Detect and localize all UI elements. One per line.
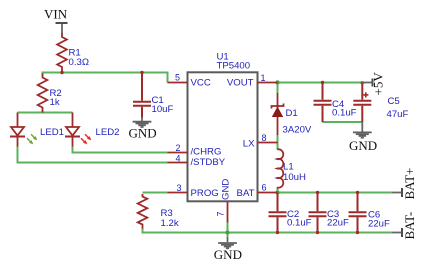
- svg-text:1: 1: [261, 73, 266, 83]
- svg-text:+5V: +5V: [371, 72, 386, 96]
- svg-text:LED1: LED1: [40, 127, 64, 138]
- svg-text:22uF: 22uF: [327, 218, 349, 229]
- svg-text:8: 8: [262, 133, 267, 143]
- svg-text:VIN: VIN: [44, 7, 68, 22]
- svg-text:5: 5: [175, 73, 180, 83]
- svg-text:22uF: 22uF: [368, 219, 390, 230]
- svg-text:10uF: 10uF: [152, 104, 174, 115]
- svg-text:GND: GND: [214, 247, 242, 262]
- svg-text:TP5400: TP5400: [217, 61, 251, 72]
- svg-text:PROG: PROG: [191, 188, 219, 199]
- svg-text:VOUT: VOUT: [227, 78, 254, 89]
- svg-text:C5: C5: [388, 96, 400, 107]
- svg-text:LX: LX: [243, 139, 255, 150]
- svg-text:0.1uF: 0.1uF: [332, 108, 357, 119]
- svg-text:3: 3: [177, 183, 182, 193]
- svg-text:0.1uF: 0.1uF: [287, 218, 312, 229]
- svg-text:47uF: 47uF: [387, 109, 409, 120]
- svg-text:GND: GND: [349, 138, 377, 153]
- svg-text:/CHRG: /CHRG: [191, 147, 222, 158]
- svg-text:7: 7: [216, 211, 226, 216]
- svg-text:BAT+: BAT+: [402, 168, 417, 200]
- svg-text:BAT: BAT: [237, 188, 255, 199]
- svg-text:1.2k: 1.2k: [161, 218, 179, 229]
- svg-text:GND: GND: [129, 126, 157, 141]
- svg-text:LED2: LED2: [96, 127, 120, 138]
- svg-text:10uH: 10uH: [283, 172, 306, 183]
- svg-text:/STDBY: /STDBY: [191, 157, 226, 168]
- svg-text:6: 6: [262, 183, 267, 193]
- svg-text:VCC: VCC: [191, 78, 211, 89]
- svg-text:L1: L1: [283, 162, 294, 173]
- svg-text:1k: 1k: [50, 97, 60, 108]
- svg-text:0.3Ω: 0.3Ω: [69, 57, 90, 68]
- svg-text:BAT-: BAT-: [402, 212, 417, 240]
- svg-text:D1: D1: [286, 108, 298, 119]
- svg-text:2: 2: [176, 143, 181, 153]
- svg-text:3A20V: 3A20V: [283, 125, 312, 136]
- svg-text:4: 4: [176, 154, 181, 164]
- svg-text:GND: GND: [221, 179, 232, 200]
